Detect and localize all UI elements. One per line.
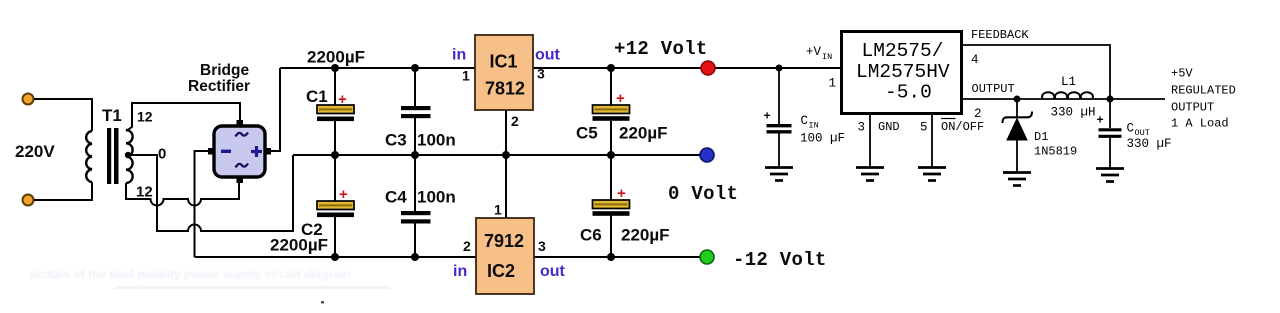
svg-text:C6: C6 [580,226,602,245]
svg-text:C5: C5 [576,124,598,143]
svg-text:220µF: 220µF [621,226,670,245]
svg-text:C: C [801,114,809,128]
wire pin 3 [869,113,871,167]
bridge minus symbol [221,150,231,153]
diode D1 [1003,99,1033,172]
svg-text:GND: GND [878,120,900,134]
svg-text:0: 0 [158,146,166,163]
svg-text:3: 3 [538,238,546,254]
terminal 220V bottom [23,195,34,206]
svg-text:3: 3 [537,66,545,82]
svg-text:in: in [452,47,466,64]
wire output [962,98,1166,100]
svg-text:12: 12 [136,184,153,201]
top rail left [280,67,475,69]
svg-text:OUTPUT: OUTPUT [1171,101,1214,115]
capacitor C4 [401,155,431,257]
svg-text:330 µH: 330 µH [1051,106,1096,120]
wire pin 5 [931,113,933,167]
svg-text:2: 2 [974,107,982,121]
svg-text:IC2: IC2 [487,261,515,281]
ground pin 5 [918,168,946,181]
svg-text:100n: 100n [417,131,456,150]
bridge AC top symbol [236,133,249,137]
node D1 junction [1014,96,1021,103]
svg-text:out: out [535,47,561,64]
node C5 mid [607,151,615,159]
wire feedback [962,45,1111,99]
capacitor C2 [317,155,354,257]
mid rail 0V [293,154,700,156]
wire secondary top tap [126,103,240,131]
bridge plus symbol [251,146,262,157]
svg-text:+5V: +5V [1171,67,1193,81]
node C5 top [607,64,615,72]
svg-text:4: 4 [971,53,979,67]
overline ON [941,118,956,120]
wire 0 tap to mid rail [127,155,293,231]
capacitor CIN [767,68,792,167]
svg-text:5: 5 [920,121,928,135]
regulator IC2 7912 [476,155,534,294]
node C3 mid [411,151,419,159]
svg-text:LM2575/: LM2575/ [862,40,944,62]
ground pin 3 [856,168,884,181]
svg-text:+: + [616,90,625,107]
transformer T1 secondary winding [126,130,133,183]
svg-text:+V: +V [806,45,822,59]
svg-text:+12 Volt: +12 Volt [614,38,708,60]
svg-text:1: 1 [462,68,470,84]
terminal 0V [700,148,714,162]
wire primary bottom [34,182,92,200]
svg-text:IC1: IC1 [490,52,518,72]
svg-text:Rectifier: Rectifier [188,78,250,95]
svg-text:1: 1 [829,77,837,91]
svg-text:2: 2 [463,238,471,254]
svg-text:C3: C3 [385,131,407,150]
svg-text:220V: 220V [15,142,55,161]
wire primary top [34,99,92,131]
wire bridge minus to bottom rail [195,151,214,257]
node C1 mid [331,151,339,159]
svg-text:+: + [339,186,348,203]
svg-text:330 µF: 330 µF [1127,137,1172,151]
svg-text:-5.0: -5.0 [885,82,932,104]
svg-text:2: 2 [511,113,519,129]
regulator U1 LM2575 [842,32,962,114]
transformer T1 primary winding [86,131,92,182]
svg-text:ON/OFF: ON/OFF [941,120,984,134]
svg-text:C4: C4 [385,188,407,207]
terminal -12V [700,250,714,264]
regulator IC1 7812 [475,35,533,155]
bottom rail [195,256,701,258]
svg-text:OUTPUT: OUTPUT [972,82,1015,96]
svg-text:in: in [453,263,467,280]
svg-text:+: + [764,110,771,124]
svg-text:C1: C1 [306,87,328,106]
svg-text:0 Volt: 0 Volt [668,183,738,205]
node secondary mid tap [125,152,131,158]
inductor L1 [1042,92,1093,99]
svg-text:picture of the dual polarity: picture of the dual polarity power suppl… [30,267,351,281]
node COUT junction [1107,96,1114,103]
svg-text:+: + [1097,114,1104,128]
node CIN junction [776,65,783,72]
svg-text:7812: 7812 [485,79,525,99]
svg-text:out: out [540,263,566,280]
ground COUT [1096,169,1124,182]
transformer T1 core [107,128,111,184]
svg-text:IN: IN [809,121,819,131]
capacitor C5 [593,68,630,155]
svg-text:3: 3 [858,121,866,135]
svg-text:2200µF: 2200µF [270,236,328,255]
watermark [30,267,351,281]
node C4 bottom [411,253,419,261]
svg-text:100n: 100n [417,188,456,207]
stray mark [321,301,324,304]
terminal 220V top [23,94,34,105]
top rail right [533,67,841,69]
wire bridge plus to top rail [265,68,280,151]
capacitor C6 [593,155,630,257]
svg-text:L1: L1 [1061,75,1076,89]
capacitor COUT [1099,99,1122,168]
svg-text:1N5819: 1N5819 [1034,145,1077,159]
svg-text:2200µF: 2200µF [307,48,365,67]
svg-text:12: 12 [137,109,153,125]
svg-text:+: + [338,91,347,108]
bridge AC bottom symbol [236,164,249,168]
svg-text:7912: 7912 [484,231,524,251]
svg-text:IN: IN [822,52,832,62]
node C1 top [331,64,339,72]
svg-text:LM2575HV: LM2575HV [856,61,950,83]
svg-text:1 A Load: 1 A Load [1171,117,1229,131]
svg-text:1: 1 [494,202,502,218]
svg-text:Bridge: Bridge [200,62,249,79]
bridge rectifier [208,120,271,183]
svg-text:-12 Volt: -12 Volt [733,249,827,271]
capacitor C1 [317,68,354,155]
ground D1 [1003,173,1031,186]
wire 12 bottom tap to bridge [126,177,239,206]
svg-text:T1: T1 [102,106,122,125]
node C3 top [411,64,419,72]
node IC mid [502,151,510,159]
capacitor C3 [401,68,431,155]
svg-text:FEEDBACK: FEEDBACK [971,28,1029,42]
svg-text:100 µF: 100 µF [800,132,845,146]
svg-text:C: C [1127,122,1135,136]
svg-text:D1: D1 [1034,130,1048,144]
svg-text:REGULATED: REGULATED [1171,84,1236,98]
node C2 bottom [331,253,339,261]
node C6 bottom [607,253,615,261]
svg-text:+: + [617,185,626,202]
ground CIN [765,168,793,181]
terminal +12V [701,61,715,75]
svg-text:220µF: 220µF [619,124,668,143]
